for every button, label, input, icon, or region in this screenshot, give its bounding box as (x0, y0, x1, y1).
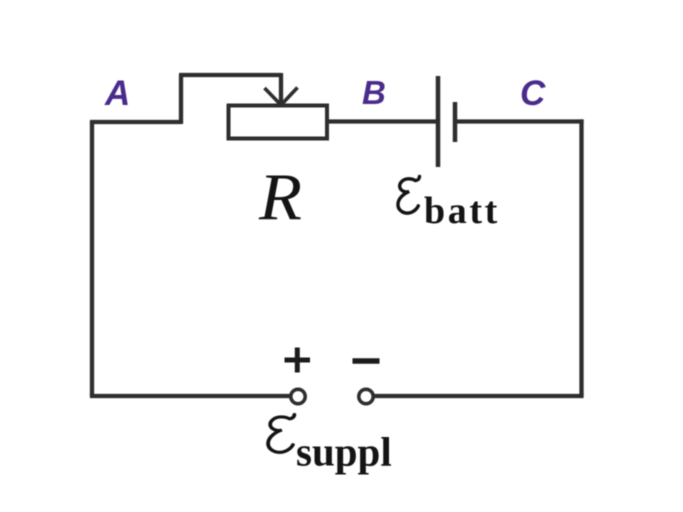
wire: left vertical A-to-bottom (90, 122, 94, 396)
wire: top horizontal over resistor (179, 73, 281, 77)
plus sign label (285, 348, 380, 373)
wire: resistor to battery (327, 119, 436, 123)
wire: riser up from A segment (179, 75, 183, 124)
wire: right vertical C-to-bottom (579, 119, 583, 396)
wire: bottom left horizontal (90, 394, 290, 398)
svg-text:C: C (520, 74, 546, 113)
battery Ebatt long plate (positive) (436, 76, 441, 167)
terminal circle (negative, right) (359, 389, 373, 403)
svg-text:B: B (362, 74, 386, 111)
battery Ebatt short plate (negative) (453, 102, 458, 142)
wire: bottom right horizontal (375, 394, 584, 398)
script E of Esuppl (268, 415, 294, 453)
script E of Ebatt (398, 177, 420, 214)
svg-text:batt: batt (424, 190, 500, 232)
resistor R1 body (229, 106, 328, 139)
wire: battery to C corner (457, 119, 584, 123)
minus sign label (353, 358, 380, 364)
wire: wiper vertical down to arrow (279, 73, 283, 103)
arrowhead of rheostat wiper (265, 88, 298, 106)
svg-text:R: R (258, 160, 302, 234)
svg-text:A: A (104, 74, 130, 113)
svg-text:suppl: suppl (296, 429, 392, 475)
terminal circle (positive, left) (291, 389, 305, 403)
wire: top-left horizontal from A corner to riser (90, 120, 181, 124)
